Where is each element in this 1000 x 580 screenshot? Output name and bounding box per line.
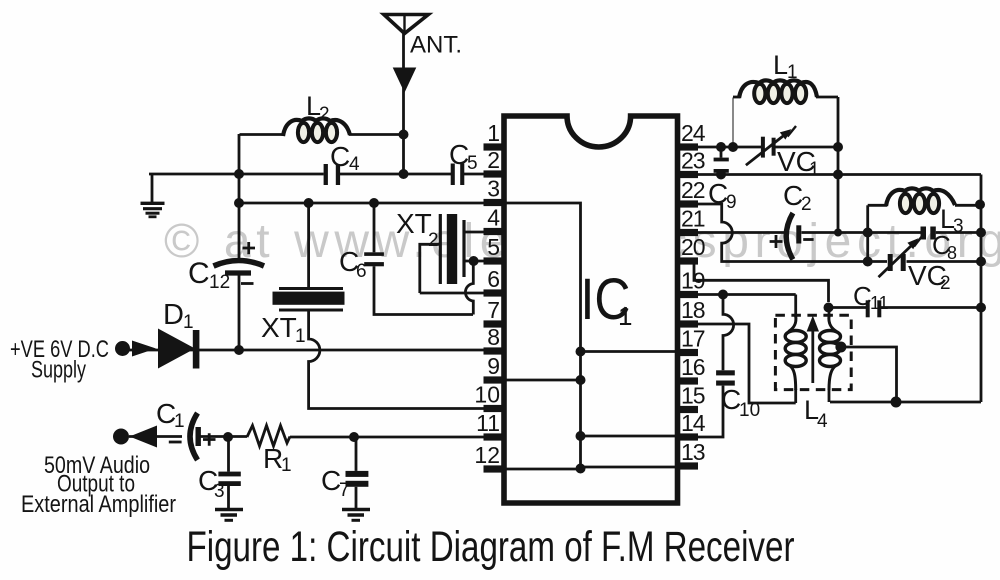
pin 11	[484, 433, 506, 440]
audio output terminal	[113, 429, 129, 445]
pin 22	[676, 200, 698, 207]
svg-text:23: 23	[681, 148, 705, 174]
pin 19	[676, 291, 698, 298]
wire: ground/C4/C5 bus to pin 2 (y=174)	[149, 173, 484, 176]
wire: pin 24 line (y=147)	[697, 146, 838, 149]
node: internal junction dots	[576, 347, 586, 474]
wire: XT2 right plate to pin 4	[464, 231, 484, 234]
svg-text:1: 1	[183, 312, 194, 333]
resistor R1	[247, 426, 290, 447]
pin 3	[484, 199, 506, 206]
node: R1/C7 junction	[349, 432, 359, 442]
inductor L3	[868, 188, 981, 213]
svg-text:2: 2	[319, 104, 330, 125]
pin 12	[484, 465, 506, 472]
supply arrow	[132, 341, 156, 357]
svg-text:3: 3	[953, 216, 964, 237]
wire: pin 18 path to L4 left coil bottom	[697, 324, 796, 403]
svg-text:1: 1	[618, 301, 632, 331]
variable capacitor VC1	[746, 135, 785, 166]
wire: drop from pin5 dot, hop over pin-6 line, join C6 run	[465, 261, 473, 315]
wire: XT1 stem with hop over pin-8 line, down to pin 10	[309, 203, 484, 409]
svg-text:1: 1	[487, 120, 500, 146]
svg-text:XT: XT	[396, 208, 432, 239]
capacitor C5	[451, 164, 465, 186]
svg-text:16: 16	[681, 354, 705, 380]
svg-text:1: 1	[281, 455, 292, 476]
svg-text:External Amplifier: External Amplifier	[21, 491, 176, 518]
svg-text:Figure 1: Circuit Diagram of F: Figure 1: Circuit Diagram of F.M Receive…	[187, 524, 795, 571]
svg-text:1: 1	[295, 326, 306, 347]
wire: L3 left vertical	[866, 205, 869, 261]
svg-text:C: C	[330, 141, 350, 172]
svg-text:L: L	[773, 50, 788, 80]
node: dots on pin 23 line	[716, 170, 843, 180]
svg-text:2: 2	[940, 273, 951, 294]
svg-text:2: 2	[428, 230, 439, 251]
node: T junction C2/L1	[834, 229, 842, 237]
node: pin5 branch dot	[469, 256, 479, 266]
svg-text:10: 10	[474, 382, 500, 408]
wire: C8 right segment	[936, 231, 981, 234]
wire: VC2 line segments (y=261.5)	[868, 260, 981, 263]
svg-text:3: 3	[487, 176, 500, 202]
pin 7	[484, 320, 506, 327]
wire: C7 stems	[355, 437, 358, 508]
svg-text:20: 20	[681, 234, 705, 260]
ground (C7)	[342, 510, 370, 521]
svg-text:3: 3	[214, 481, 225, 502]
node: VC2-left junction	[863, 257, 873, 267]
wire: XT2 right plate to pin 5	[464, 260, 484, 263]
wire: L2 left lead down to junctions	[239, 134, 284, 350]
svg-text:9: 9	[726, 192, 737, 213]
capacitor C9	[714, 158, 729, 173]
pin 8	[484, 347, 506, 354]
capacitor C2 (electrolytic)	[770, 213, 814, 260]
transformer L4 dashed box	[775, 315, 851, 389]
svg-text:14: 14	[681, 410, 706, 436]
crystal XT2	[440, 214, 464, 284]
capacitor C6	[364, 252, 384, 266]
ground (C3)	[215, 510, 243, 521]
svg-text:C: C	[188, 257, 210, 290]
ground (main, top-left)	[141, 174, 165, 217]
transformer L4 left winding	[785, 295, 806, 404]
wire: far right vertical	[980, 175, 983, 403]
capacitor C11	[866, 300, 882, 317]
svg-text:XT: XT	[261, 312, 297, 343]
wire: audio line (y=436.5)	[129, 435, 484, 438]
transformer L4 core arrow	[811, 329, 814, 383]
pin 18	[676, 320, 698, 327]
wire: XT2 left plate to pin 6	[420, 244, 484, 293]
svg-text:1: 1	[787, 62, 798, 83]
wire: internal bus from pin 3	[506, 203, 676, 469]
svg-text:7: 7	[487, 297, 500, 323]
capacitor C8	[921, 227, 936, 240]
capacitor C10	[716, 370, 735, 385]
node: dots on pin-3 bus	[304, 198, 379, 208]
node: D1/C12 junction	[234, 345, 244, 355]
svg-text:6: 6	[487, 266, 500, 292]
pin 1	[484, 143, 506, 150]
wire: C10 bottom to pin 14	[698, 386, 723, 437]
pin 14	[676, 433, 698, 440]
wire: pin 22 hook, hop over pin 21 line, run to VC2 line	[697, 204, 868, 262]
capacitor C3	[218, 472, 240, 486]
node: C1/C3 junction	[223, 432, 233, 442]
node: L4 tap dot	[835, 342, 846, 353]
svg-text:Supply: Supply	[31, 357, 87, 384]
pin 4	[484, 228, 506, 235]
node: dots on pin 24 line	[716, 142, 843, 152]
pin 23	[676, 171, 698, 178]
node: L4/C11/pin20 junction	[824, 303, 834, 313]
wire: pin 21 line to C2	[697, 231, 788, 234]
wire: C2 right to T junction and on to C8	[802, 231, 921, 234]
svg-text:2: 2	[487, 147, 500, 173]
wire: C11 line	[829, 306, 982, 309]
capacitor C4	[324, 164, 340, 185]
inductor L1	[733, 80, 838, 232]
node: L3-left/C8 junction	[863, 228, 873, 238]
svg-text:6: 6	[356, 261, 367, 282]
svg-text:1: 1	[809, 159, 820, 180]
node: bottom junction	[891, 397, 902, 408]
wire: C6 stems and run to XT2 drop	[374, 203, 473, 315]
svg-text:13: 13	[681, 439, 705, 465]
svg-text:12: 12	[474, 442, 500, 468]
diode D1	[158, 329, 199, 369]
wire: pin 23 line (y=174.5) to far right	[697, 173, 981, 176]
svg-text:21: 21	[681, 206, 705, 232]
svg-text:15: 15	[681, 383, 705, 409]
transformer L4 right winding	[820, 308, 841, 403]
node: junction dots upper-left area	[234, 130, 409, 209]
svg-text:17: 17	[681, 326, 705, 352]
wire: L4 bottom line to far right	[830, 401, 981, 404]
antenna ANT.	[384, 15, 429, 175]
variable capacitor VC2	[879, 245, 913, 277]
svg-text:9: 9	[487, 353, 500, 379]
wire: C3 stems	[227, 437, 230, 508]
wire: pin-3 bus (y=203)	[239, 202, 484, 205]
pin 21	[676, 229, 698, 236]
svg-text:4: 4	[349, 154, 360, 175]
capacitor C1 (electrolytic)	[169, 413, 216, 460]
supply terminal	[115, 341, 130, 356]
IC IC1 (24-pin DIP body)	[504, 116, 678, 503]
svg-text:8: 8	[947, 243, 957, 263]
svg-text:11: 11	[476, 410, 500, 436]
wire: pin19 drop, hop over pin 18 line, to C10	[723, 295, 734, 371]
svg-text:4: 4	[817, 411, 828, 432]
svg-text:5: 5	[487, 234, 500, 260]
node: dots on far right vertical	[975, 200, 986, 313]
pin 15	[676, 406, 698, 413]
pin 24	[676, 143, 698, 150]
pin 9	[484, 376, 506, 383]
svg-text:7: 7	[339, 480, 350, 501]
capacitor C12 (electrolytic)	[214, 242, 265, 284]
svg-text:11: 11	[870, 293, 889, 313]
inductor L2	[283, 118, 350, 142]
pin 17	[676, 349, 698, 356]
node: pin19 branch dot	[718, 290, 728, 300]
svg-text:12: 12	[209, 272, 230, 293]
audio arrow	[130, 426, 158, 448]
svg-text:1: 1	[174, 411, 185, 432]
wire: pin 19 line	[697, 293, 796, 296]
wire: L4 tap line	[841, 347, 897, 402]
capacitor C7	[346, 471, 369, 487]
svg-text:2: 2	[801, 194, 812, 215]
svg-text:22: 22	[681, 177, 705, 203]
pin 2	[484, 170, 506, 177]
svg-text:D: D	[163, 299, 184, 331]
svg-text:5: 5	[467, 153, 478, 174]
pin 6	[484, 289, 506, 296]
svg-text:8: 8	[487, 324, 500, 350]
wire: L2 right lead to antenna line	[349, 133, 404, 136]
pin 20	[676, 257, 698, 264]
svg-text:18: 18	[681, 297, 705, 323]
svg-text:ANT.: ANT.	[410, 32, 462, 59]
pin 16	[676, 377, 698, 384]
wire: C9 stems	[720, 147, 723, 175]
svg-text:24: 24	[681, 120, 706, 146]
wire: supply line to pin 8 (y=350)	[129, 349, 484, 352]
svg-text:4: 4	[487, 205, 500, 231]
pin 5	[484, 257, 506, 264]
pin 13	[676, 462, 698, 469]
svg-text:C: C	[853, 281, 872, 311]
pin 10	[484, 405, 506, 412]
wire: pin 20 path to C11/L4 node	[694, 263, 829, 302]
crystal XT1	[273, 289, 345, 311]
